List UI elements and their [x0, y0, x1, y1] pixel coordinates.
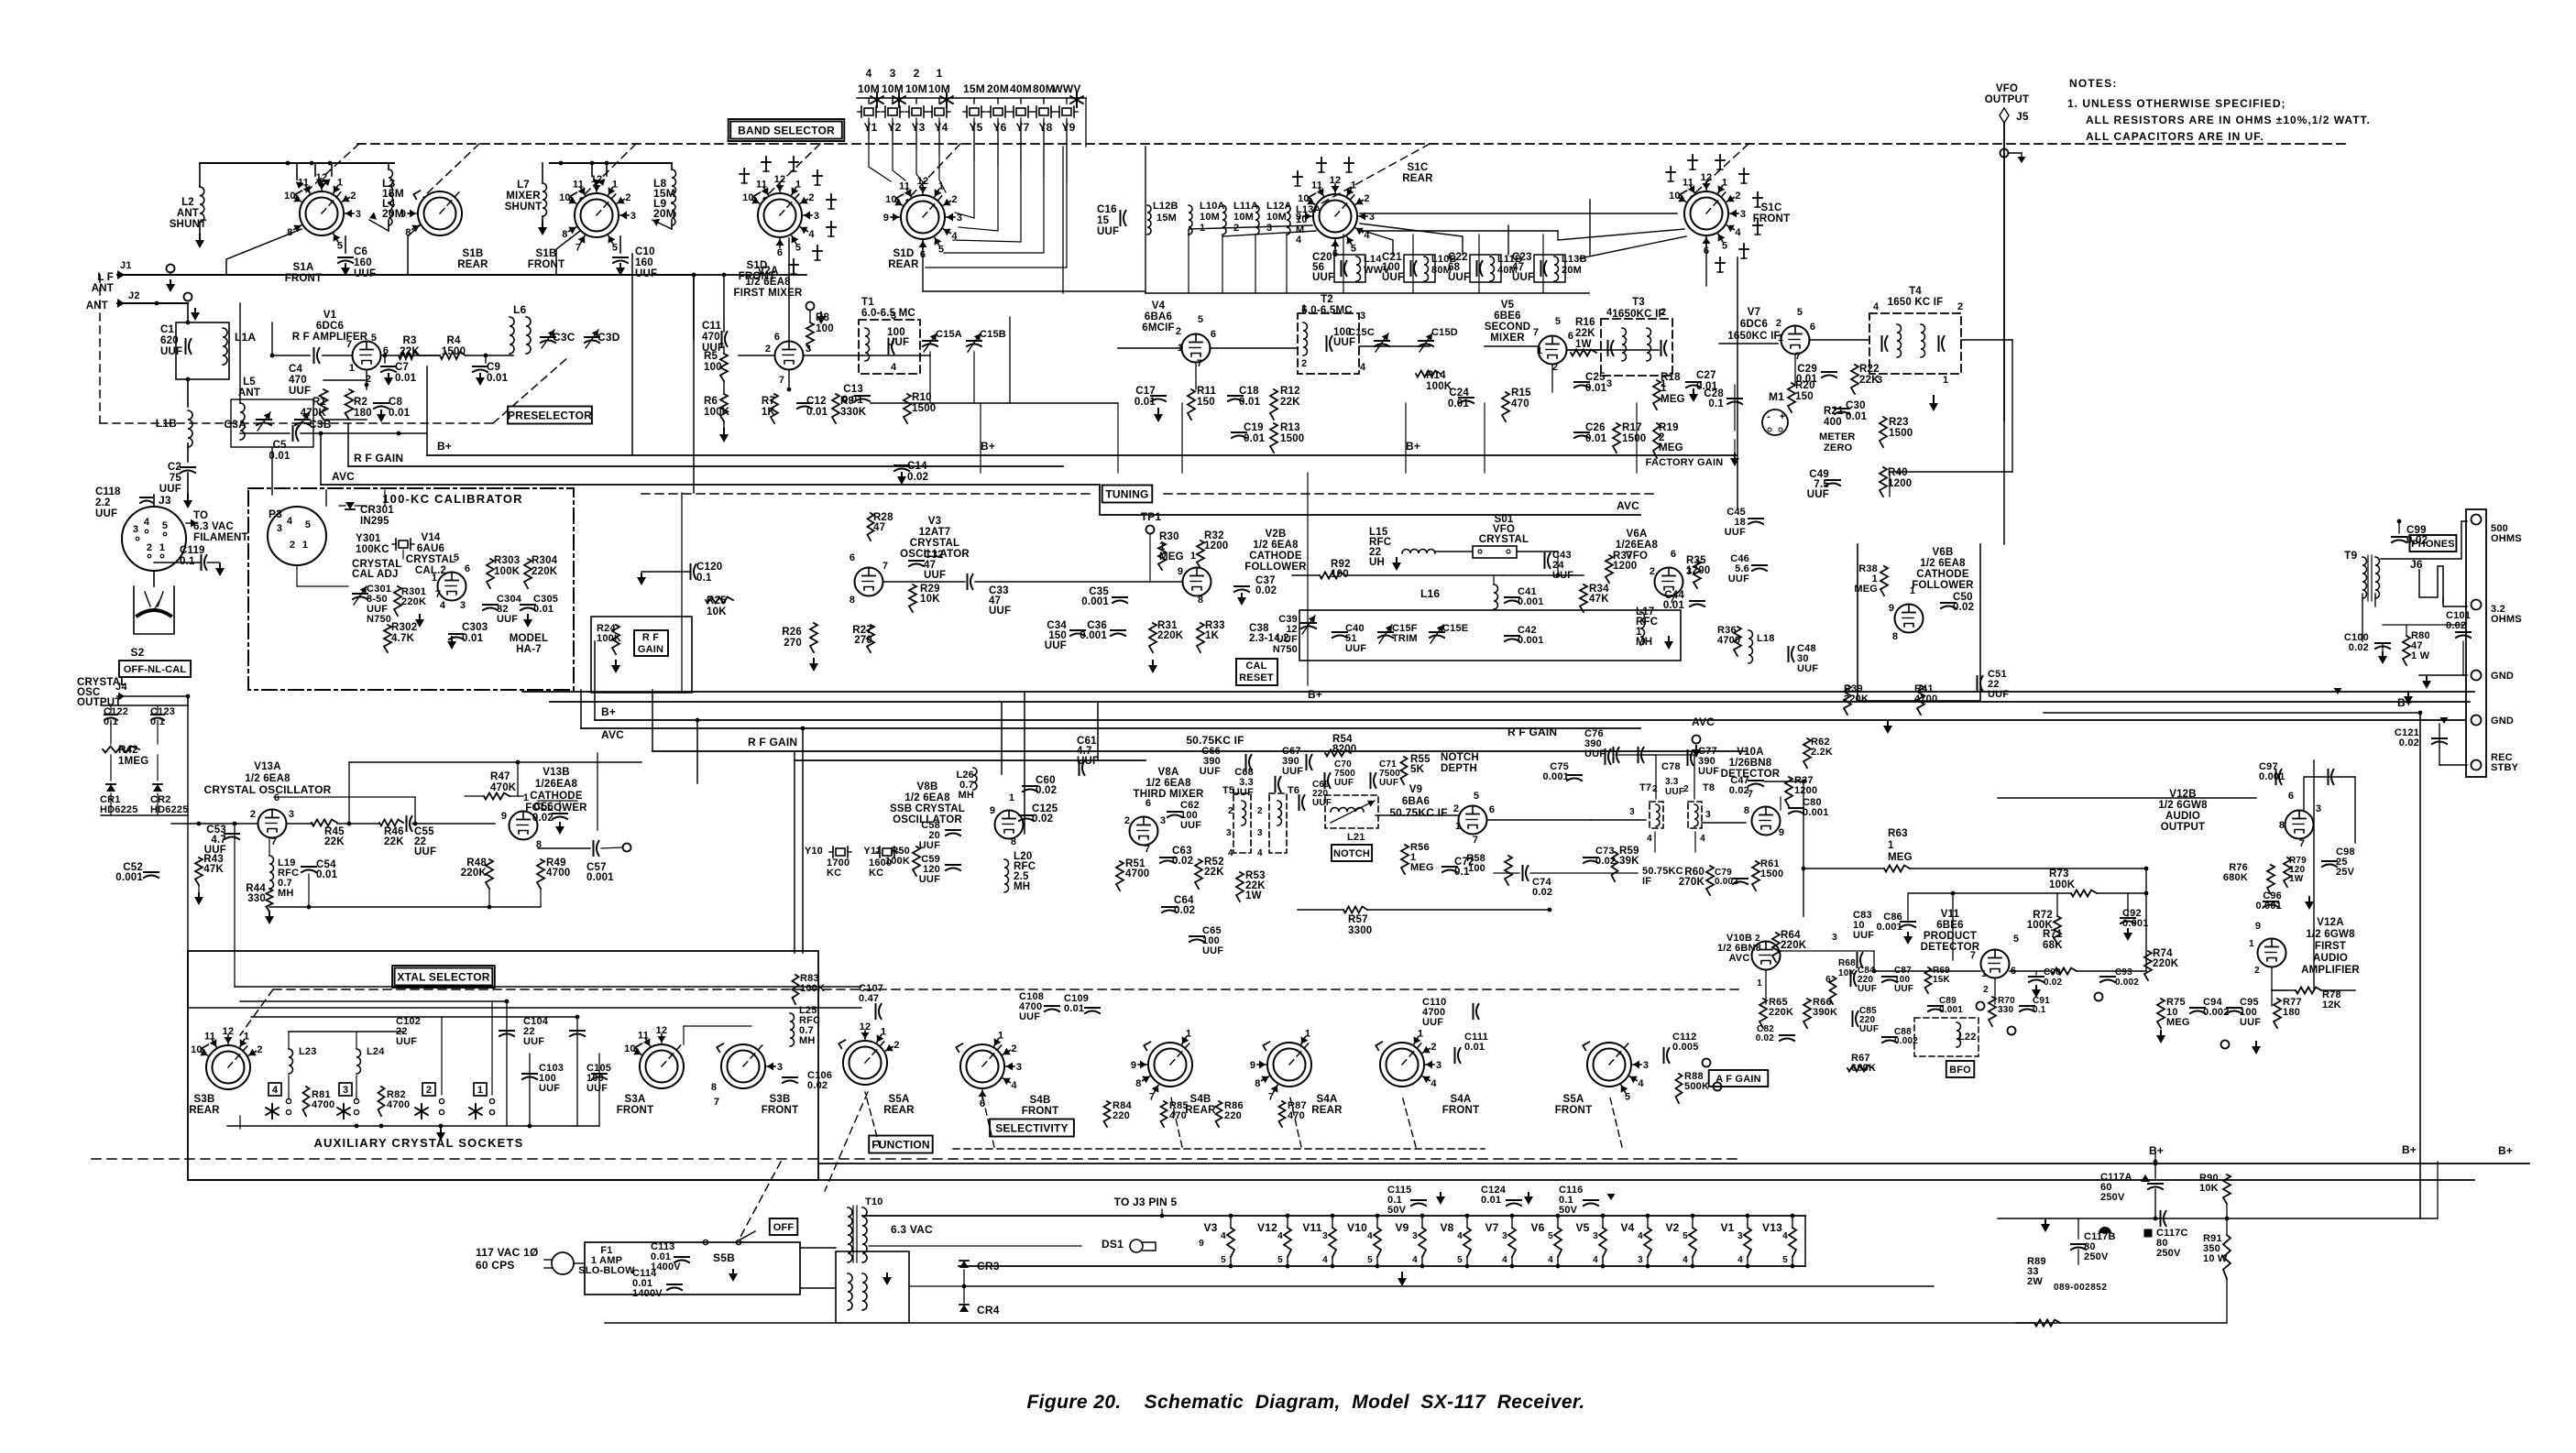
svg-text:9: 9: [883, 213, 889, 224]
svg-text:680K: 680K: [1851, 1063, 1876, 1074]
svg-text:3: 3: [1629, 807, 1635, 817]
svg-text:1200: 1200: [1888, 478, 1912, 489]
svg-text:22K: 22K: [324, 836, 345, 847]
svg-text:0.01: 0.01: [1481, 1195, 1501, 1206]
svg-text:4: 4: [1277, 1231, 1283, 1241]
svg-text:0.005: 0.005: [1672, 1042, 1699, 1053]
svg-text:V12A: V12A: [2317, 917, 2344, 928]
svg-text:3: 3: [777, 1062, 783, 1073]
svg-text:12K: 12K: [2322, 1000, 2341, 1011]
svg-text:6: 6: [1810, 322, 1815, 333]
svg-text:SSB CRYSTAL: SSB CRYSTAL: [890, 803, 965, 814]
svg-text:0.1: 0.1: [180, 556, 195, 567]
svg-text:UUF: UUF: [523, 1036, 544, 1047]
svg-text:0.47: 0.47: [859, 993, 879, 1004]
svg-text:10K: 10K: [920, 594, 940, 605]
svg-text:L10A: L10A: [1200, 201, 1225, 212]
svg-text:6: 6: [465, 563, 470, 574]
svg-text:0.01: 0.01: [1448, 399, 1470, 410]
svg-text:60 CPS: 60 CPS: [476, 1259, 515, 1272]
svg-text:STBY: STBY: [2491, 762, 2519, 773]
svg-text:S1A: S1A: [293, 262, 314, 273]
svg-text:Figure 20. Schematic Diagr: Figure 20. Schematic Diagram, Model SX-1…: [1026, 1392, 1584, 1413]
svg-text:R22: R22: [1859, 364, 1880, 375]
svg-text:100: 100: [704, 362, 722, 373]
svg-text:REAR: REAR: [888, 259, 919, 270]
svg-text:UUF: UUF: [1894, 984, 1913, 994]
svg-text:1400V: 1400V: [632, 1288, 663, 1299]
svg-text:R14: R14: [1426, 370, 1446, 381]
svg-text:1K: 1K: [762, 407, 776, 418]
svg-text:4: 4: [1647, 834, 1652, 844]
svg-text:R F GAIN: R F GAIN: [748, 736, 797, 748]
svg-text:UUF: UUF: [586, 1083, 608, 1094]
svg-text:MH: MH: [1014, 881, 1030, 892]
svg-text:UUF: UUF: [1725, 527, 1746, 538]
svg-text:220K: 220K: [401, 596, 426, 607]
svg-text:5: 5: [1797, 307, 1803, 318]
svg-text:39K: 39K: [1619, 856, 1639, 867]
svg-text:HA-7: HA-7: [516, 644, 542, 655]
svg-text:R304: R304: [532, 555, 558, 566]
svg-text:9: 9: [1131, 1060, 1136, 1071]
svg-text:0.02: 0.02: [1255, 585, 1277, 596]
svg-text:0.01: 0.01: [316, 869, 338, 880]
svg-text:4: 4: [440, 600, 446, 611]
svg-text:8: 8: [850, 595, 855, 606]
svg-text:R11: R11: [1197, 386, 1216, 397]
svg-text:3: 3: [1412, 1231, 1418, 1241]
svg-text:0.01: 0.01: [806, 407, 828, 418]
svg-text:1: 1: [1778, 333, 1783, 344]
svg-text:Y6: Y6: [992, 121, 1006, 134]
svg-text:R13: R13: [1280, 422, 1300, 433]
svg-text:C8: C8: [389, 397, 403, 408]
svg-text:MH: MH: [278, 888, 294, 899]
svg-text:3300: 3300: [1348, 925, 1372, 936]
svg-text:10: 10: [191, 1044, 203, 1055]
svg-text:7: 7: [1533, 327, 1539, 338]
svg-text:6DC6: 6DC6: [1740, 319, 1768, 330]
svg-text:1/2 6EA8: 1/2 6EA8: [1145, 778, 1191, 789]
svg-text:C90: C90: [2044, 967, 2061, 978]
svg-text:RESET: RESET: [1239, 672, 1274, 683]
svg-text:HD6225: HD6225: [100, 804, 138, 815]
svg-text:7: 7: [882, 561, 888, 572]
svg-text:11: 11: [756, 179, 767, 190]
svg-text:400: 400: [1824, 417, 1842, 428]
svg-text:5: 5: [1457, 1255, 1463, 1265]
svg-text:0.02: 0.02: [1174, 905, 1195, 916]
svg-text:Y2: Y2: [887, 121, 901, 134]
svg-text:2: 2: [250, 809, 256, 820]
svg-text:J2: J2: [128, 290, 140, 301]
svg-text:1650KC IF: 1650KC IF: [1727, 331, 1780, 342]
svg-text:7: 7: [435, 589, 441, 600]
svg-text:0.02: 0.02: [2446, 620, 2466, 631]
svg-text:FRONT: FRONT: [1753, 213, 1791, 224]
svg-text:68K: 68K: [2043, 940, 2063, 951]
svg-text:4700: 4700: [1914, 694, 1937, 705]
svg-text:Y4: Y4: [934, 121, 948, 134]
svg-text:4: 4: [1257, 848, 1263, 858]
svg-text:22K: 22K: [1204, 867, 1224, 878]
svg-text:4: 4: [1221, 1231, 1226, 1241]
svg-text:V1: V1: [1720, 1221, 1734, 1234]
svg-text:220K: 220K: [2153, 958, 2179, 969]
svg-text:V13: V13: [1762, 1221, 1782, 1234]
svg-text:REAR: REAR: [1311, 1105, 1343, 1116]
svg-text:C15B: C15B: [980, 329, 1006, 340]
svg-text:MIXER: MIXER: [1490, 333, 1525, 344]
svg-text:4: 4: [1606, 307, 1613, 318]
svg-text:R26: R26: [782, 627, 802, 638]
svg-text:B+: B+: [2402, 1143, 2417, 1156]
svg-text:7: 7: [575, 243, 581, 254]
svg-text:25V: 25V: [2336, 867, 2355, 878]
svg-text:7: 7: [1149, 1092, 1155, 1103]
svg-text:8: 8: [1892, 631, 1898, 642]
svg-text:R17: R17: [1622, 422, 1642, 433]
svg-text:0.02: 0.02: [1532, 887, 1552, 898]
svg-text:ANT: ANT: [177, 208, 199, 219]
svg-text:0.1: 0.1: [696, 573, 712, 584]
svg-text:11: 11: [1311, 180, 1322, 191]
svg-text:V10A: V10A: [1737, 747, 1764, 758]
svg-text:UUF: UUF: [1728, 574, 1749, 584]
svg-text:2: 2: [290, 540, 295, 551]
svg-text:CRYSTAL OSCILLATOR: CRYSTAL OSCILLATOR: [204, 783, 332, 796]
svg-text:TRIM: TRIM: [1392, 633, 1418, 644]
svg-text:6: 6: [2288, 791, 2294, 802]
svg-text:10: 10: [742, 192, 754, 203]
svg-text:C24: C24: [1449, 388, 1469, 399]
svg-text:7: 7: [1268, 1092, 1274, 1103]
svg-text:0.01: 0.01: [389, 408, 411, 419]
svg-text:C56: C56: [533, 802, 554, 813]
svg-text:C6: C6: [354, 246, 367, 257]
svg-text:C1: C1: [160, 324, 175, 335]
svg-text:V1: V1: [323, 310, 337, 321]
svg-text:1: 1: [2249, 939, 2254, 949]
svg-text:R73: R73: [2049, 869, 2069, 879]
svg-text:2: 2: [1228, 806, 1233, 816]
svg-text:250V: 250V: [2100, 1192, 2125, 1203]
svg-text:10: 10: [885, 194, 897, 205]
svg-text:15M: 15M: [1156, 213, 1177, 224]
svg-text:R10: R10: [912, 392, 932, 403]
svg-text:SLO-BLOW: SLO-BLOW: [578, 1265, 635, 1276]
svg-text:ALL CAPACITORS ARE IN: ALL CAPACITORS ARE IN UF.: [2086, 130, 2264, 143]
svg-text:0.01: 0.01: [487, 373, 509, 384]
svg-text:Y3: Y3: [911, 121, 925, 134]
svg-text:FRONT: FRONT: [528, 259, 565, 270]
svg-text:B+: B+: [437, 440, 452, 453]
svg-text:3: 3: [1502, 1231, 1507, 1241]
svg-text:UUF: UUF: [1333, 337, 1355, 348]
svg-text:22K: 22K: [1575, 328, 1595, 339]
svg-text:ALL RESISTORS ARE IN O: ALL RESISTORS ARE IN OHMS ±10%,1/2 WATT.: [2086, 114, 2371, 126]
svg-text:4: 4: [1412, 1255, 1418, 1265]
svg-text:4: 4: [1700, 834, 1705, 844]
svg-text:220K: 220K: [461, 868, 488, 879]
svg-text:R6: R6: [704, 396, 718, 407]
svg-text:UUF: UUF: [1345, 643, 1366, 654]
svg-text:UUF: UUF: [1859, 1024, 1879, 1034]
svg-text:L14: L14: [1364, 254, 1382, 265]
svg-text:CRYSTAL: CRYSTAL: [1479, 534, 1529, 545]
svg-text:C15A: C15A: [936, 329, 962, 340]
svg-text:L11A: L11A: [1233, 201, 1258, 212]
svg-text:0.01: 0.01: [1585, 433, 1607, 444]
svg-text:3: 3: [1016, 1062, 1022, 1073]
svg-text:8: 8: [1744, 805, 1749, 816]
svg-text:1: 1: [1757, 978, 1762, 989]
svg-text:1: 1: [432, 573, 437, 584]
svg-text:10M: 10M: [1266, 212, 1287, 223]
svg-text:0.001: 0.001: [2259, 771, 2286, 782]
svg-text:V3: V3: [928, 516, 941, 527]
svg-text:3: 3: [891, 311, 896, 322]
svg-text:2: 2: [2254, 966, 2260, 976]
svg-text:C26: C26: [1585, 422, 1606, 433]
svg-text:AVC: AVC: [1728, 953, 1749, 964]
svg-text:2: 2: [914, 67, 920, 80]
svg-text:220: 220: [1113, 1110, 1130, 1121]
svg-text:50.75KC IF: 50.75KC IF: [1389, 806, 1447, 819]
svg-text:270: 270: [784, 638, 802, 649]
svg-text:4: 4: [866, 67, 872, 80]
svg-text:UUF: UUF: [1200, 766, 1221, 777]
svg-text:3: 3: [1643, 1060, 1649, 1071]
svg-text:V7: V7: [1485, 1221, 1498, 1234]
svg-text:0.002: 0.002: [2115, 978, 2139, 988]
svg-text:C93: C93: [2115, 967, 2132, 978]
svg-text:11: 11: [1683, 177, 1694, 188]
svg-text:UUF: UUF: [1097, 226, 1119, 237]
svg-text:DS1: DS1: [1102, 1238, 1124, 1251]
svg-text:0.001: 0.001: [1939, 1005, 1963, 1015]
svg-text:Y8: Y8: [1038, 121, 1052, 134]
svg-text:CATHODE: CATHODE: [1249, 551, 1302, 562]
svg-text:2: 2: [1776, 318, 1781, 329]
svg-text:5: 5: [1474, 791, 1479, 802]
svg-text:CAL: CAL: [1245, 661, 1266, 672]
svg-text:4700: 4700: [312, 1099, 334, 1110]
svg-text:1K: 1K: [1205, 630, 1220, 641]
svg-text:0.001: 0.001: [1518, 596, 1544, 607]
svg-text:0.01: 0.01: [1135, 397, 1156, 408]
svg-text:47K: 47K: [1589, 594, 1609, 605]
svg-text:S4A: S4A: [1451, 1094, 1472, 1105]
svg-text:4: 4: [287, 516, 293, 527]
svg-text:L16: L16: [1420, 587, 1440, 600]
svg-text:UUF: UUF: [1045, 640, 1067, 651]
svg-text:4700: 4700: [1717, 635, 1740, 646]
svg-text:5: 5: [1277, 1255, 1283, 1265]
svg-text:+: +: [1780, 411, 1786, 422]
svg-text:SELECTIVITY: SELECTIVITY: [995, 1121, 1069, 1134]
svg-text:R57: R57: [1348, 914, 1368, 925]
svg-text:R F AMPLIFER: R F AMPLIFER: [292, 332, 368, 343]
svg-text:4700: 4700: [546, 868, 570, 879]
svg-text:Y11: Y11: [863, 846, 882, 857]
svg-text:DETECTOR: DETECTOR: [1721, 769, 1781, 780]
svg-text:500K: 500K: [1684, 1081, 1709, 1092]
svg-text:J1: J1: [120, 260, 132, 271]
svg-text:OUTPUT: OUTPUT: [2161, 822, 2205, 833]
svg-text:C27: C27: [1696, 370, 1716, 381]
svg-text:R302: R302: [391, 622, 417, 633]
svg-text:L7: L7: [517, 180, 530, 191]
svg-text:1/2 6EA8: 1/2 6EA8: [745, 277, 791, 288]
svg-text:S1C: S1C: [1761, 202, 1782, 213]
svg-text:UUF: UUF: [414, 847, 436, 858]
svg-text:V11: V11: [1941, 909, 1960, 920]
svg-text:0.02: 0.02: [907, 472, 928, 483]
svg-text:4: 4: [272, 1085, 279, 1096]
svg-text:CRYSTAL: CRYSTAL: [406, 554, 455, 565]
svg-text:75: 75: [170, 473, 182, 484]
svg-text:160: 160: [635, 257, 653, 268]
svg-text:T9: T9: [2344, 549, 2358, 562]
svg-text:6.3 VAC: 6.3 VAC: [193, 521, 234, 532]
svg-text:REAR: REAR: [189, 1105, 220, 1116]
svg-text:B+: B+: [601, 705, 616, 718]
svg-text:6.3 VAC: 6.3 VAC: [891, 1223, 933, 1236]
svg-text:330: 330: [247, 893, 266, 904]
svg-text:11: 11: [573, 179, 584, 190]
svg-text:1500: 1500: [442, 346, 466, 357]
svg-text:FACTORY GAIN: FACTORY GAIN: [1646, 457, 1724, 468]
svg-text:220K: 220K: [1781, 940, 1807, 951]
svg-text:V6B: V6B: [1933, 547, 1954, 558]
svg-text:1: 1: [1009, 792, 1014, 803]
svg-text:FIRST: FIRST: [2315, 941, 2346, 952]
svg-text:GND: GND: [2491, 671, 2514, 682]
svg-text:180: 180: [2283, 1007, 2300, 1018]
svg-text:R47: R47: [490, 771, 510, 782]
svg-text:0.01: 0.01: [533, 604, 554, 615]
svg-text:5: 5: [938, 245, 944, 256]
svg-text:T2: T2: [1321, 294, 1333, 305]
svg-text:Y5: Y5: [969, 121, 982, 134]
svg-text:DEPTH: DEPTH: [1441, 763, 1477, 774]
svg-text:0.001: 0.001: [1518, 635, 1544, 646]
svg-text:AVC: AVC: [332, 470, 355, 483]
svg-text:8: 8: [1255, 1078, 1260, 1089]
svg-text:10M: 10M: [1200, 212, 1220, 223]
svg-text:11: 11: [638, 1030, 649, 1041]
svg-text:R20: R20: [1795, 380, 1815, 391]
svg-text:0.001: 0.001: [1542, 771, 1569, 782]
svg-text:R12: R12: [1280, 386, 1300, 397]
svg-text:0.1: 0.1: [2033, 1005, 2046, 1015]
svg-text:FILAMENT: FILAMENT: [193, 532, 248, 543]
svg-text:R1: R1: [312, 397, 327, 408]
svg-text:1: 1: [1455, 821, 1461, 832]
svg-text:0.001: 0.001: [586, 872, 614, 883]
svg-text:TP1: TP1: [1141, 510, 1162, 523]
svg-text:5: 5: [1683, 1231, 1688, 1241]
svg-text:3: 3: [277, 523, 282, 534]
svg-text:0.02: 0.02: [2044, 978, 2063, 988]
svg-text:11: 11: [204, 1031, 215, 1042]
svg-text:R15: R15: [1511, 388, 1531, 399]
svg-text:330K: 330K: [840, 407, 867, 418]
svg-text:4: 4: [1431, 1078, 1437, 1089]
svg-text:6: 6: [1568, 331, 1573, 342]
svg-text:0.002: 0.002: [2203, 1007, 2230, 1018]
svg-text:470K: 470K: [490, 782, 517, 793]
svg-text:10: 10: [1669, 191, 1681, 202]
svg-text:1500: 1500: [1280, 433, 1304, 444]
svg-text:0.01: 0.01: [842, 395, 864, 406]
svg-text:3: 3: [630, 211, 636, 222]
svg-text:5: 5: [1625, 1092, 1630, 1103]
svg-text:0.02: 0.02: [532, 813, 554, 824]
svg-text:C3D: C3D: [597, 331, 620, 344]
svg-text:3: 3: [1322, 1231, 1328, 1241]
svg-text:ANT: ANT: [238, 388, 260, 399]
svg-text:R71: R71: [2043, 929, 2063, 940]
svg-text:5: 5: [1367, 1255, 1373, 1265]
svg-text:7: 7: [2299, 838, 2305, 849]
svg-text:270: 270: [854, 635, 872, 646]
svg-text:10 W: 10 W: [2203, 1253, 2228, 1264]
svg-text:0.01: 0.01: [1846, 411, 1868, 422]
svg-text:2: 2: [1957, 301, 1963, 312]
svg-text:1: 1: [349, 363, 355, 374]
svg-text:A F GAIN: A F GAIN: [1716, 1074, 1760, 1085]
svg-text:AUXILIARY CRYSTAL SOCKETS: AUXILIARY CRYSTAL SOCKETS: [313, 1136, 523, 1150]
svg-text:6: 6: [1489, 804, 1495, 815]
svg-text:1/26EA8: 1/26EA8: [535, 779, 578, 790]
svg-text:100K: 100K: [800, 983, 825, 994]
svg-text:C2: C2: [168, 462, 181, 473]
svg-text:4: 4: [1873, 301, 1880, 312]
svg-text:470K: 470K: [301, 408, 327, 419]
svg-text:CR301: CR301: [360, 505, 394, 516]
svg-text:1: 1: [302, 540, 308, 551]
svg-text:0.01: 0.01: [1663, 600, 1685, 611]
svg-text:3: 3: [1705, 810, 1711, 820]
svg-text:S1D: S1D: [893, 248, 915, 259]
svg-text:6BA6: 6BA6: [1145, 311, 1172, 322]
svg-text:C30: C30: [1846, 400, 1866, 411]
svg-text:MODEL: MODEL: [510, 633, 549, 644]
svg-text:UUF: UUF: [1512, 272, 1534, 283]
svg-text:V11: V11: [1302, 1221, 1321, 1234]
svg-text:6: 6: [777, 247, 783, 258]
svg-text:4700: 4700: [1125, 869, 1149, 879]
svg-text:220: 220: [1224, 1110, 1242, 1121]
svg-text:2: 2: [765, 344, 771, 355]
svg-text:SHUNT: SHUNT: [170, 219, 207, 230]
svg-text:V9: V9: [1395, 1221, 1409, 1234]
svg-text:5: 5: [1198, 314, 1203, 325]
svg-text:V13A: V13A: [254, 761, 281, 772]
svg-text:8: 8: [1135, 1078, 1141, 1089]
svg-text:0.001: 0.001: [115, 872, 143, 883]
svg-text:2: 2: [1431, 1042, 1436, 1053]
svg-text:6: 6: [1211, 329, 1216, 340]
svg-text:0.02: 0.02: [1032, 814, 1053, 825]
svg-text:20M: 20M: [987, 82, 1009, 95]
svg-text:100: 100: [1331, 569, 1349, 580]
svg-text:9: 9: [2255, 921, 2261, 932]
svg-text:2: 2: [1683, 784, 1689, 794]
